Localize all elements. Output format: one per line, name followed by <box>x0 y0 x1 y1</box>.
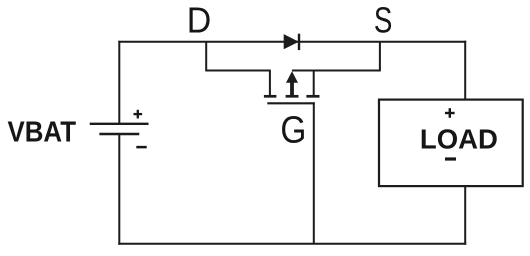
transistor Q1 body arrow head <box>286 71 298 83</box>
svg-text:D: D <box>187 0 212 40</box>
svg-text:VBAT: VBAT <box>8 117 77 149</box>
transistor Q1 source contact bar <box>306 95 319 98</box>
wire drain drop from top rail <box>205 42 207 71</box>
svg-text:LOAD: LOAD <box>420 124 498 155</box>
diode D1 cathode bar <box>298 34 300 50</box>
transistor Q1 gate plate <box>267 102 315 104</box>
wire drain horizontal <box>205 70 270 72</box>
transistor Q1 drain contact bar <box>264 95 277 98</box>
battery VBAT positive plate <box>90 123 149 125</box>
wire gate vertical to bottom rail <box>313 102 315 243</box>
wire source drop from top rail <box>379 42 381 71</box>
wire top rail <box>118 41 466 43</box>
battery minus sign <box>136 146 146 149</box>
wire source horizontal <box>292 70 381 72</box>
battery plus sign <box>134 113 143 115</box>
transistor Q1 body contact bar <box>286 95 299 98</box>
wire left vertical (VBAT to bottom rail) <box>118 134 120 245</box>
wire left vertical (top rail to VBAT) <box>118 41 120 123</box>
wire right vertical (top rail to LOAD) <box>464 41 466 100</box>
load box <box>379 100 523 187</box>
svg-text:G: G <box>280 110 306 152</box>
load plus sign <box>445 112 455 114</box>
transistor Q1 body arrow stem <box>290 82 294 96</box>
wire source lead down to channel <box>313 70 315 96</box>
wire right vertical (LOAD to bottom rail) <box>464 186 466 245</box>
load minus sign <box>445 157 456 160</box>
battery VBAT negative plate <box>99 133 139 135</box>
svg-text:S: S <box>374 0 393 41</box>
wire bottom rail <box>118 243 466 245</box>
wire drain lead down to channel <box>269 70 271 96</box>
diode D1 anode triangle <box>284 34 299 49</box>
